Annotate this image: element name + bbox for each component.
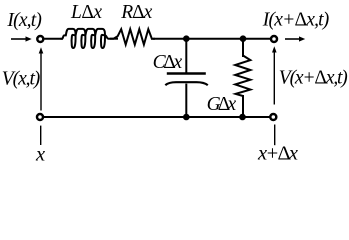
current arrow I(x,t) xyxy=(11,36,32,41)
svg-text:RΔx: RΔx xyxy=(120,2,152,23)
node terminal bottom-right xyxy=(270,114,276,120)
node terminal top-right xyxy=(271,36,277,42)
capacitor C bottom plate xyxy=(165,82,208,85)
inductor L xyxy=(61,29,112,48)
resistor R xyxy=(111,29,155,44)
conductance G stem bottom xyxy=(242,95,244,117)
svg-text:V(x+Δx,t): V(x+Δx,t) xyxy=(279,67,348,88)
capacitor stem bottom xyxy=(185,84,187,117)
junction bottom capacitor node xyxy=(183,114,190,121)
capacitor stem top xyxy=(185,39,187,73)
wire top-left xyxy=(44,38,63,40)
svg-text:GΔx: GΔx xyxy=(207,94,237,115)
svg-text:x+Δx: x+Δx xyxy=(257,142,298,164)
svg-text:V(x,t): V(x,t) xyxy=(2,68,41,89)
svg-text:CΔx: CΔx xyxy=(153,52,183,73)
junction bottom G node xyxy=(239,114,246,121)
current arrow I(x+dx,t) xyxy=(285,36,305,41)
junction top capacitor node xyxy=(183,35,190,42)
junction top G node xyxy=(240,35,247,42)
svg-text:x: x xyxy=(35,143,45,165)
voltage arrow V(x,t) xyxy=(39,47,44,110)
voltage arrow V(x+dx,t) xyxy=(272,46,277,104)
svg-text:I(x+Δx,t): I(x+Δx,t) xyxy=(262,9,330,30)
capacitor C top plate xyxy=(167,72,206,74)
wire between L and R xyxy=(110,38,118,40)
wire top middle-right xyxy=(153,38,271,40)
tick below bottom-left terminal xyxy=(40,126,42,145)
tick below bottom-right terminal xyxy=(274,125,276,146)
svg-text:LΔx: LΔx xyxy=(70,2,102,23)
conductance G zigzag xyxy=(235,56,250,97)
node terminal bottom-left xyxy=(37,114,43,120)
conductance G stem top xyxy=(242,39,244,57)
bottom wire xyxy=(44,116,270,118)
node terminal top-left xyxy=(37,36,43,42)
svg-text:I(x,t): I(x,t) xyxy=(6,10,42,31)
